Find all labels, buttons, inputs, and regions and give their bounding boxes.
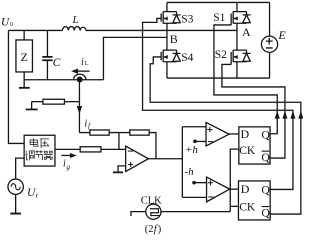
label ig (63, 159, 70, 171)
svg-text:S1: S1 (213, 12, 225, 24)
node -h dot (192, 181, 196, 185)
resistor ig input (80, 147, 101, 152)
wire comp1 + input (182, 126, 206, 128)
voltage regulator box (24, 135, 55, 166)
dc source E (269, 2, 271, 78)
label iL with left arrow (81, 57, 89, 68)
svg-text:S4: S4 (181, 52, 193, 64)
wire FF1 CK (230, 149, 239, 212)
svg-text:S2: S2 (215, 49, 227, 61)
wire to op-amp inverting input (101, 148, 126, 150)
junction dot iL node (77, 76, 83, 82)
AC source Ur (16, 158, 25, 179)
svg-text:CK: CK (239, 201, 256, 213)
svg-text:U: U (27, 187, 36, 199)
svg-text:S3: S3 (181, 13, 193, 25)
svg-text:A: A (242, 25, 251, 39)
wire current sense vertical (78, 80, 80, 133)
wire comp2 to FF2 D (230, 188, 239, 190)
wire comp2 + input from -h (194, 182, 207, 184)
svg-text:L: L (71, 14, 78, 26)
svg-text:(2: (2 (145, 224, 154, 235)
arrow down on sense wire (77, 106, 82, 114)
svg-text:Q: Q (261, 127, 270, 141)
wire shunt resistor lead (64, 101, 79, 103)
op-amp U1 (126, 146, 149, 171)
svg-text:i: i (81, 57, 84, 68)
arrow iL pointing left (76, 70, 89, 72)
wire op-amp output (148, 158, 182, 160)
svg-text:Z: Z (20, 50, 27, 64)
label (2f) (145, 224, 162, 235)
svg-text:U: U (1, 17, 10, 29)
comparator U3 (207, 177, 230, 202)
node +h dot (193, 140, 197, 144)
capacitor C (46, 30, 48, 79)
wire CLK to CK bus (161, 211, 230, 213)
ground below Ur (10, 213, 21, 215)
overline FF1 Qbar (262, 150, 270, 152)
arrow up on S3 gate line (290, 111, 295, 119)
wire regulator output (55, 148, 80, 150)
ground at op-amp (113, 171, 123, 173)
wire comp1 to FF1 D (229, 133, 239, 135)
transistor S3 with body diode (161, 2, 180, 50)
wire bridge top rail (167, 1, 270, 3)
ground below shunt (31, 102, 33, 110)
arrow up on S1 gate line (275, 111, 280, 119)
svg-text:B: B (170, 32, 178, 46)
wire bottom load wire (24, 79, 103, 81)
flip-flop FF2 box (238, 181, 270, 220)
svg-text:i: i (84, 119, 87, 130)
wire shunt left lead (32, 101, 43, 103)
arrow ig pointing right (61, 154, 71, 156)
wire FF2 CK (230, 205, 238, 207)
arrow up on S4 gate line (298, 111, 303, 119)
svg-text:C: C (53, 57, 61, 69)
wire comp1 - input from +h (195, 140, 206, 142)
resistor if input (90, 130, 109, 135)
comparator U2 (206, 122, 229, 146)
svg-text:Q: Q (261, 182, 270, 196)
wire Z top lead (23, 30, 25, 40)
wire gate net S1: FF1 Q up and across to S1 gate (214, 21, 277, 133)
wire CLK left stub (131, 212, 146, 216)
svg-text:E: E (277, 28, 286, 42)
svg-text:D: D (241, 182, 250, 196)
flip-flop FF1 box (239, 127, 270, 164)
wire feedback resistor leads (119, 133, 156, 159)
transistor S4 with body diode (161, 50, 180, 78)
node U0 label (1, 17, 13, 29)
wire comparator input bus (181, 127, 183, 198)
svg-text:D: D (240, 127, 249, 141)
wire comp2 - input (182, 196, 206, 198)
ground below Z (23, 80, 25, 88)
label if (84, 119, 91, 131)
arrow up on S2 gate line (282, 111, 287, 119)
wire node B branch (103, 37, 167, 79)
svg-text:g: g (66, 163, 70, 171)
svg-text:L: L (85, 60, 89, 67)
wire if resistor leads (79, 132, 119, 134)
wire gate net S4: FF2 Qbar up and across to S4 gate (150, 57, 301, 214)
wire summing node vertical (118, 133, 120, 150)
overline FF2 Qbar (262, 206, 270, 208)
svg-text:): ) (158, 224, 162, 235)
wire Ur to ground (15, 194, 17, 213)
impedance Z (16, 40, 33, 72)
resistor feedback (130, 130, 149, 135)
svg-text:Q: Q (261, 206, 270, 220)
svg-text:0: 0 (10, 21, 13, 28)
svg-text:f: f (88, 122, 91, 130)
wire op-amp + input to ground (118, 166, 126, 172)
wire gate net S3: FF2 Q up and across to S3 gate (143, 18, 293, 189)
wire hop arc at iL node (74, 74, 86, 80)
wire gate net S2: FF1 Qbar up and across to S2 gate (222, 60, 285, 158)
svg-text:+h: +h (185, 144, 198, 156)
wire top load wire from U0 node to node A (8, 29, 237, 31)
wire left branch down to voltage regulator (8, 30, 24, 143)
wire bridge bottom rail (167, 77, 270, 79)
transistor S1 with body diode (231, 2, 250, 50)
svg-text:r: r (36, 191, 39, 200)
transistor S2 with body diode (231, 50, 250, 78)
text dianya tiaojieqi (25, 138, 52, 160)
svg-text:CK: CK (239, 145, 256, 157)
label Ur (27, 187, 39, 200)
resistor shunt (43, 99, 64, 104)
inductor L (62, 27, 86, 31)
wire Z bottom lead (23, 72, 25, 80)
svg-text:Q: Q (261, 150, 270, 164)
svg-text:-h: -h (184, 166, 194, 178)
